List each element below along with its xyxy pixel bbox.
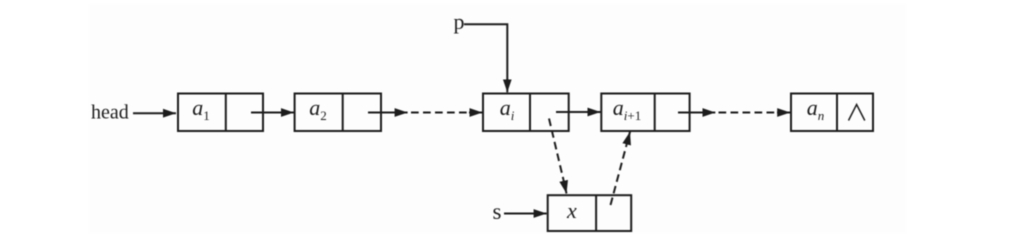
svg-text:x: x <box>566 198 577 223</box>
svg-text:p: p <box>454 9 465 34</box>
svg-text:s: s <box>493 199 502 224</box>
svg-text:head: head <box>91 102 129 124</box>
